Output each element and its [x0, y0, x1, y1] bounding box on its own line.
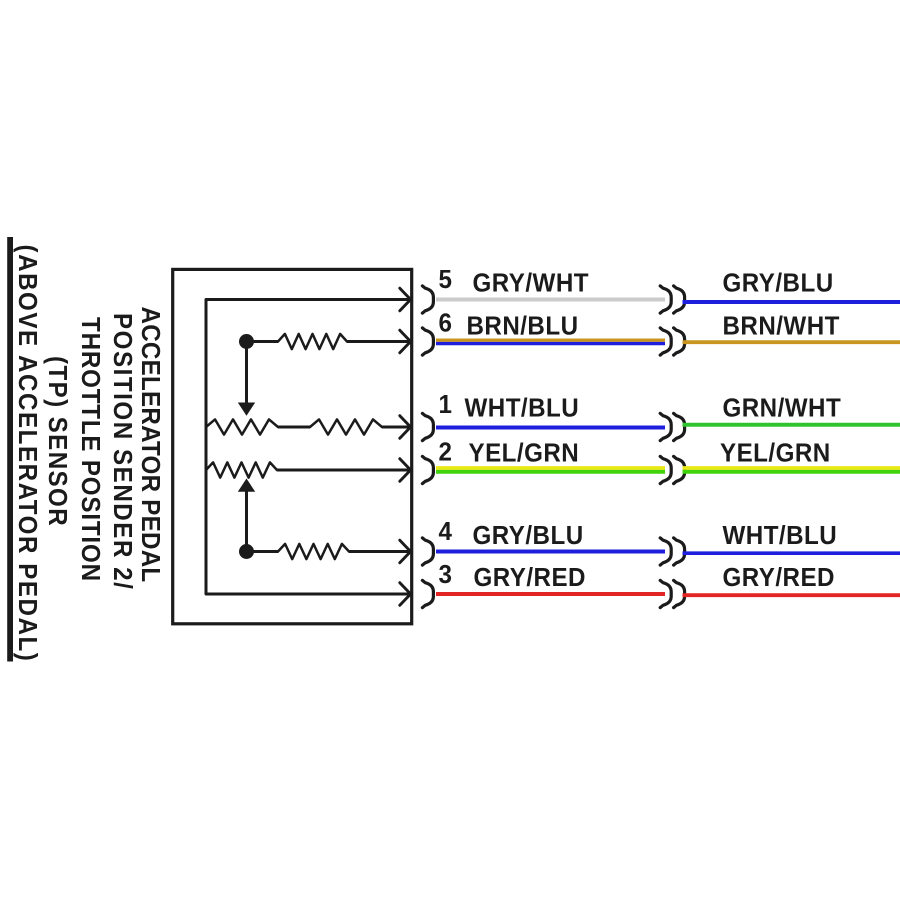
svg-text:(ABOVE ACCELERATOR PEDAL): (ABOVE ACCELERATOR PEDAL) — [13, 245, 42, 663]
svg-text:(TP) SENSOR: (TP) SENSOR — [43, 356, 72, 527]
svg-text:THROTTLE POSITION: THROTTLE POSITION — [76, 317, 105, 582]
svg-text:6: 6 — [439, 309, 453, 338]
svg-text:WHT/BLU: WHT/BLU — [465, 394, 580, 423]
svg-text:GRY/BLU: GRY/BLU — [473, 521, 584, 550]
svg-text:1: 1 — [439, 390, 453, 419]
svg-text:GRY/RED: GRY/RED — [474, 563, 586, 592]
svg-text:YEL/GRN: YEL/GRN — [720, 439, 831, 468]
svg-text:BRN/BLU: BRN/BLU — [467, 312, 579, 341]
svg-text:5: 5 — [439, 265, 453, 294]
svg-text:GRY/BLU: GRY/BLU — [723, 269, 834, 298]
svg-text:WHT/BLU: WHT/BLU — [723, 521, 838, 550]
svg-text:ACCELERATOR PEDAL: ACCELERATOR PEDAL — [136, 307, 165, 583]
svg-text:POSITION SENDER 2/: POSITION SENDER 2/ — [108, 313, 137, 590]
svg-text:GRY/RED: GRY/RED — [723, 563, 835, 592]
svg-text:YEL/GRN: YEL/GRN — [469, 439, 580, 468]
svg-text:BRN/WHT: BRN/WHT — [723, 312, 841, 341]
svg-text:3: 3 — [439, 560, 453, 589]
svg-text:4: 4 — [439, 517, 453, 546]
svg-text:GRY/WHT: GRY/WHT — [473, 269, 590, 298]
svg-text:2: 2 — [439, 438, 453, 467]
svg-text:GRN/WHT: GRN/WHT — [723, 394, 842, 423]
